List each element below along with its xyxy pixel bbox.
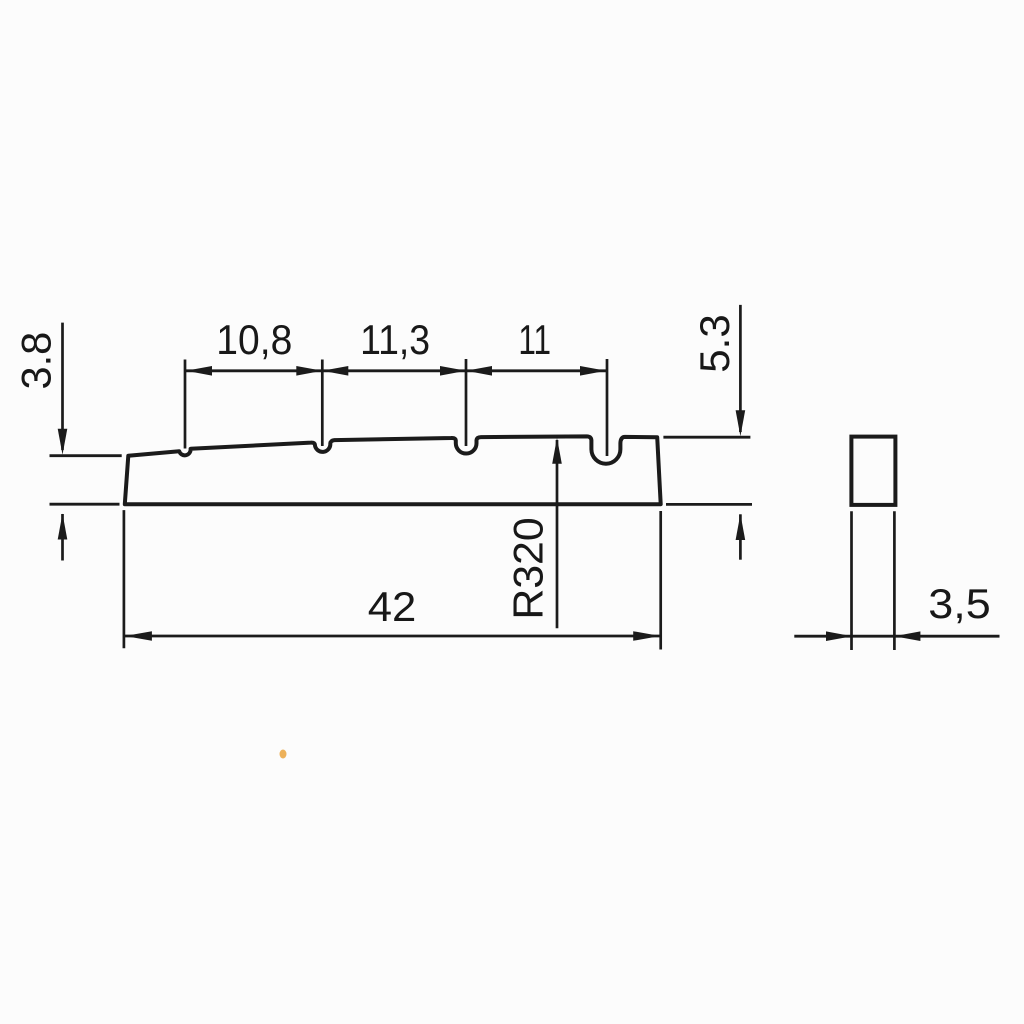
- arrowheads double at 466: [440, 366, 466, 376]
- nut body (front view outline): [125, 436, 661, 504]
- right dim 5.3 upper leader: [739, 305, 742, 432]
- svg-text:3.8: 3.8: [13, 332, 60, 390]
- string slot extension line 4: [606, 359, 609, 456]
- side dim 3,5 left extension line: [850, 511, 853, 650]
- right dim 5.3 bottom extension line: [666, 503, 752, 506]
- side view rectangle: [851, 437, 895, 505]
- string slot extension line 3: [465, 359, 468, 446]
- R320 leader line: [556, 440, 559, 628]
- bottom dim 42 left extension line: [123, 510, 126, 648]
- paper speck (orange): [280, 750, 287, 759]
- svg-text:11,3: 11,3: [360, 317, 430, 363]
- left dim top extension line: [50, 454, 122, 457]
- arrowhead right at 607: [580, 366, 606, 376]
- side dimension line 3,5: [794, 635, 999, 638]
- svg-text:10,8: 10,8: [216, 316, 292, 364]
- svg-text:42: 42: [368, 584, 417, 631]
- bottom dimension line 42: [125, 635, 660, 638]
- left dim 3.8 lower leader: [61, 514, 64, 561]
- left dim 3.8 upper leader: [61, 323, 64, 450]
- svg-text:5.3: 5.3: [691, 314, 738, 372]
- arrowheads double at 322.3: [296, 366, 322, 376]
- right dim 5.3 lower leader: [739, 514, 742, 559]
- string slot extension line 1: [184, 360, 187, 449]
- svg-text:R320: R320: [505, 517, 552, 619]
- svg-text:11: 11: [518, 316, 551, 364]
- side dim 3,5 right extension line: [893, 511, 896, 650]
- arrowhead left at 185: [186, 366, 212, 376]
- bottom dim 42 right extension line: [659, 511, 662, 650]
- svg-text:3,5: 3,5: [928, 581, 990, 627]
- top dimension line: [185, 369, 607, 372]
- right dim 5.3 top extension line: [663, 436, 750, 439]
- left dim bottom extension line: [50, 503, 120, 506]
- string slot extension line 2: [321, 360, 324, 447]
